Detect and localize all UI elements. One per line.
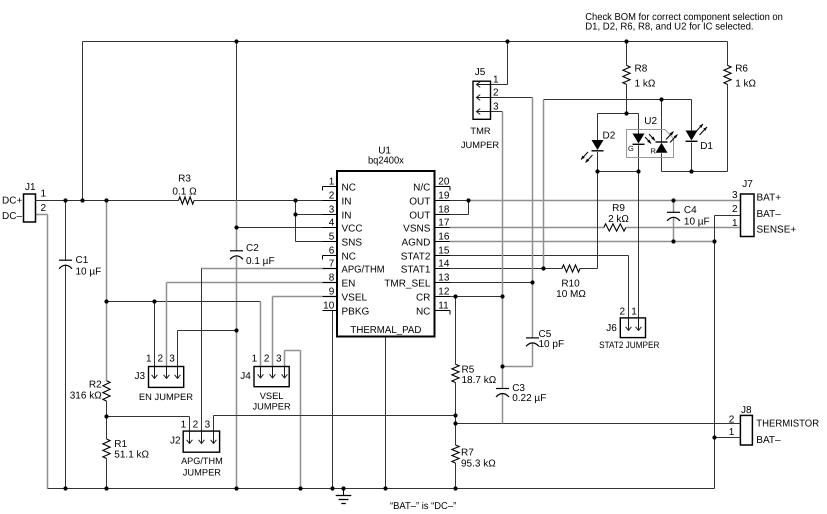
svg-text:1: 1 bbox=[493, 74, 499, 85]
svg-text:2: 2 bbox=[732, 204, 738, 215]
svg-text:JUMPER: JUMPER bbox=[461, 140, 500, 150]
svg-text:U2: U2 bbox=[644, 116, 657, 127]
svg-text:J7: J7 bbox=[742, 179, 753, 190]
svg-text:16: 16 bbox=[438, 232, 450, 243]
svg-text:EN: EN bbox=[342, 278, 356, 289]
svg-text:PBKG: PBKG bbox=[342, 306, 370, 317]
svg-text:2: 2 bbox=[619, 307, 625, 318]
svg-text:17: 17 bbox=[438, 218, 450, 229]
svg-text:J3: J3 bbox=[135, 371, 146, 382]
svg-text:2: 2 bbox=[729, 415, 735, 426]
svg-text:4: 4 bbox=[329, 218, 335, 229]
svg-text:J1: J1 bbox=[25, 182, 36, 193]
svg-text:BAT–: BAT– bbox=[757, 209, 782, 220]
svg-text:NC: NC bbox=[342, 251, 356, 262]
svg-text:J5: J5 bbox=[475, 67, 486, 78]
svg-text:1: 1 bbox=[252, 353, 258, 364]
svg-text:APG/THM: APG/THM bbox=[342, 264, 385, 275]
svg-text:SNS: SNS bbox=[342, 237, 363, 248]
svg-text:THERMISTOR: THERMISTOR bbox=[756, 419, 819, 430]
svg-text:R8: R8 bbox=[635, 64, 648, 75]
svg-text:10 µF: 10 µF bbox=[76, 267, 102, 278]
svg-text:VSEL: VSEL bbox=[342, 292, 368, 303]
svg-text:1: 1 bbox=[329, 177, 335, 188]
svg-text:2 kΩ: 2 kΩ bbox=[608, 214, 629, 225]
svg-text:1: 1 bbox=[181, 420, 187, 431]
svg-text:13: 13 bbox=[438, 273, 450, 284]
svg-text:STAT1: STAT1 bbox=[401, 264, 431, 275]
svg-text:7: 7 bbox=[329, 259, 335, 270]
svg-text:1: 1 bbox=[146, 353, 152, 364]
svg-text:IN: IN bbox=[342, 196, 352, 207]
svg-text:2: 2 bbox=[264, 353, 270, 364]
svg-text:VSEL: VSEL bbox=[260, 391, 284, 401]
svg-text:STAT2 JUMPER: STAT2 JUMPER bbox=[599, 340, 660, 350]
svg-text:DC+: DC+ bbox=[2, 196, 22, 207]
svg-text:12: 12 bbox=[438, 287, 450, 298]
svg-text:R9: R9 bbox=[612, 203, 625, 214]
svg-text:15: 15 bbox=[438, 246, 450, 257]
svg-text:“BAT–” is “DC–”: “BAT–” is “DC–” bbox=[390, 501, 456, 512]
svg-text:NC: NC bbox=[342, 182, 356, 193]
svg-text:NC: NC bbox=[416, 306, 430, 317]
svg-text:BAT+: BAT+ bbox=[757, 193, 782, 204]
svg-text:0.1 Ω: 0.1 Ω bbox=[172, 187, 197, 198]
svg-text:THERMAL_PAD: THERMAL_PAD bbox=[350, 325, 421, 336]
svg-text:R: R bbox=[651, 147, 657, 156]
svg-text:D2: D2 bbox=[603, 130, 616, 141]
svg-text:6: 6 bbox=[329, 246, 335, 257]
svg-text:2: 2 bbox=[41, 203, 47, 214]
svg-text:J2: J2 bbox=[170, 436, 181, 447]
svg-text:IN: IN bbox=[342, 210, 352, 221]
svg-text:316 kΩ: 316 kΩ bbox=[70, 390, 102, 401]
svg-text:R6: R6 bbox=[735, 64, 748, 75]
svg-text:3: 3 bbox=[493, 101, 499, 112]
svg-text:JUMPER: JUMPER bbox=[183, 467, 222, 477]
svg-text:N/C: N/C bbox=[413, 182, 430, 193]
svg-text:J6: J6 bbox=[606, 323, 617, 334]
svg-text:51.1 kΩ: 51.1 kΩ bbox=[114, 450, 149, 461]
svg-text:VSNS: VSNS bbox=[403, 223, 431, 234]
svg-text:14: 14 bbox=[438, 259, 450, 270]
svg-text:3: 3 bbox=[732, 190, 738, 201]
svg-text:OUT: OUT bbox=[409, 210, 430, 221]
svg-text:BAT–: BAT– bbox=[756, 435, 781, 446]
svg-text:20: 20 bbox=[438, 177, 450, 188]
svg-text:10 pF: 10 pF bbox=[539, 339, 565, 350]
svg-text:STAT2: STAT2 bbox=[401, 251, 431, 262]
svg-text:3: 3 bbox=[169, 353, 175, 364]
svg-text:J8: J8 bbox=[741, 405, 752, 416]
svg-text:19: 19 bbox=[438, 191, 450, 202]
svg-text:1: 1 bbox=[729, 427, 735, 438]
svg-text:R3: R3 bbox=[178, 174, 191, 185]
svg-text:D1: D1 bbox=[700, 141, 713, 152]
svg-text:3: 3 bbox=[205, 420, 211, 431]
svg-text:CR: CR bbox=[416, 292, 430, 303]
svg-text:0.1 µF: 0.1 µF bbox=[246, 256, 275, 267]
svg-text:J4: J4 bbox=[240, 371, 251, 382]
svg-text:JUMPER: JUMPER bbox=[252, 402, 291, 412]
svg-text:AGND: AGND bbox=[401, 237, 430, 248]
svg-text:TMR_SEL: TMR_SEL bbox=[384, 278, 431, 289]
svg-text:C2: C2 bbox=[246, 243, 259, 254]
svg-text:C4: C4 bbox=[684, 205, 697, 216]
svg-text:C1: C1 bbox=[76, 255, 89, 266]
svg-text:0.22 µF: 0.22 µF bbox=[512, 393, 546, 404]
svg-text:1 kΩ: 1 kΩ bbox=[635, 78, 656, 89]
svg-text:10 MΩ: 10 MΩ bbox=[556, 289, 586, 300]
svg-text:DC–: DC– bbox=[2, 211, 22, 222]
svg-text:2: 2 bbox=[193, 420, 199, 431]
svg-text:APG/THM: APG/THM bbox=[181, 456, 223, 466]
svg-text:5: 5 bbox=[329, 232, 335, 243]
svg-text:TMR: TMR bbox=[470, 126, 490, 136]
svg-text:VCC: VCC bbox=[342, 223, 363, 234]
svg-text:18.7 kΩ: 18.7 kΩ bbox=[462, 375, 497, 386]
svg-text:OUT: OUT bbox=[409, 196, 430, 207]
svg-text:9: 9 bbox=[329, 287, 335, 298]
svg-text:18: 18 bbox=[438, 205, 450, 216]
svg-text:G: G bbox=[628, 144, 634, 153]
svg-text:2: 2 bbox=[329, 191, 335, 202]
svg-text:SENSE+: SENSE+ bbox=[757, 225, 797, 236]
svg-text:bq2400x: bq2400x bbox=[368, 155, 404, 166]
svg-text:10: 10 bbox=[323, 301, 335, 312]
svg-text:R2: R2 bbox=[89, 380, 102, 391]
svg-text:1: 1 bbox=[631, 307, 637, 318]
svg-text:1: 1 bbox=[732, 218, 738, 229]
svg-text:D1, D2, R6, R8, and U2 for IC: D1, D2, R6, R8, and U2 for IC selected. bbox=[585, 21, 753, 32]
svg-text:8: 8 bbox=[329, 273, 335, 284]
svg-text:3: 3 bbox=[276, 353, 282, 364]
svg-text:R1: R1 bbox=[114, 439, 127, 450]
svg-text:3: 3 bbox=[329, 205, 335, 216]
svg-text:2: 2 bbox=[493, 87, 499, 98]
svg-text:2: 2 bbox=[157, 353, 163, 364]
svg-text:95.3 kΩ: 95.3 kΩ bbox=[461, 458, 496, 469]
svg-text:11: 11 bbox=[438, 301, 449, 312]
svg-text:1 kΩ: 1 kΩ bbox=[735, 78, 756, 89]
svg-text:R7: R7 bbox=[461, 448, 474, 459]
svg-text:10 µF: 10 µF bbox=[684, 217, 710, 228]
svg-text:EN JUMPER: EN JUMPER bbox=[139, 392, 193, 402]
svg-text:1: 1 bbox=[41, 189, 47, 200]
